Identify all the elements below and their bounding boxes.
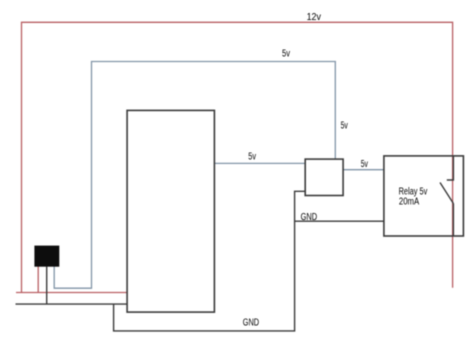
switch blade — [440, 183, 453, 204]
svg-text:5v: 5v — [282, 49, 290, 60]
wire gnd lower-left horizontal — [16, 303, 128, 305]
driver block U2 — [305, 159, 343, 195]
switch upper contact inside relay — [447, 156, 454, 180]
svg-text:GND: GND — [301, 212, 318, 223]
wire gnd bottom rail to driver block — [114, 191, 306, 331]
switch lower contact — [452, 204, 454, 237]
wire 5v main run (blue) — [54, 62, 335, 289]
relay K1 box — [384, 156, 464, 236]
wire 12v main run (red) — [22, 22, 453, 292]
sensor component (filled black box) — [34, 246, 59, 267]
wire black lead from sensor to gnd — [46, 267, 48, 305]
controller block U1 — [127, 110, 214, 312]
wire 5v from controller to driver block (blue) — [214, 162, 305, 164]
svg-text:12v: 12v — [307, 12, 321, 23]
svg-text:5v: 5v — [248, 152, 256, 163]
svg-text:5v: 5v — [341, 120, 348, 131]
wire red lead from component to 12v rail — [37, 267, 39, 293]
svg-text:5v: 5v — [361, 159, 368, 170]
svg-text:20mA: 20mA — [399, 197, 420, 208]
wire 5v from driver block to relay (blue) — [343, 169, 384, 171]
wire 12v bottom rail (red) — [16, 292, 127, 294]
wire gnd branch to relay — [295, 220, 384, 222]
svg-text:GND: GND — [243, 318, 259, 329]
